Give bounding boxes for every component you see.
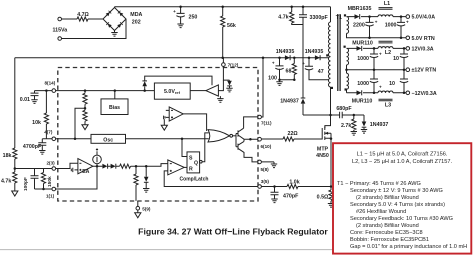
svg-text:L1: L1	[384, 1, 390, 7]
svg-text:470pF: 470pF	[283, 193, 299, 199]
svg-text:2200: 2200	[353, 23, 365, 29]
svg-text:T1 − Primary: 45 Turns # 26 AW: T1 − Primary: 45 Turns # 26 AWG	[337, 181, 421, 187]
svg-text:MUR110: MUR110	[352, 40, 373, 46]
svg-text:18k: 18k	[3, 153, 12, 159]
svg-text:10: 10	[393, 56, 399, 62]
svg-text:MDA: MDA	[130, 12, 142, 18]
svg-text:2.7k: 2.7k	[341, 123, 351, 129]
svg-text:L3: L3	[385, 103, 391, 109]
svg-text:Core: Ferroxcube EC35−3C8: Core: Ferroxcube EC35−3C8	[350, 230, 423, 236]
svg-text:22Ω: 22Ω	[288, 131, 299, 137]
svg-text:4700pF: 4700pF	[23, 144, 42, 150]
svg-text:10k: 10k	[32, 120, 41, 126]
svg-text:100: 100	[268, 75, 277, 81]
svg-text:7(11): 7(11)	[261, 121, 272, 126]
svg-text:S: S	[189, 155, 193, 161]
svg-text:2(3): 2(3)	[47, 160, 56, 165]
svg-text:5.0V/4.0A: 5.0V/4.0A	[412, 15, 436, 21]
svg-text:5(8): 5(8)	[261, 167, 270, 172]
svg-text:Osc: Osc	[103, 137, 113, 143]
svg-text:Secondary ± 12 V: 9 Turns # 30: Secondary ± 12 V: 9 Turns # 30 AWG	[350, 188, 443, 194]
svg-text:12V/0.3A: 12V/0.3A	[412, 46, 434, 52]
svg-text:1000: 1000	[357, 56, 369, 62]
svg-text:±12V RTN: ±12V RTN	[412, 68, 437, 74]
svg-text:+: +	[406, 19, 409, 24]
svg-text:5.0Vref: 5.0Vref	[164, 89, 181, 95]
svg-text:+: +	[173, 9, 176, 14]
svg-text:0.01: 0.01	[20, 97, 30, 103]
svg-text:EA: EA	[82, 169, 89, 175]
svg-text:1.0k: 1.0k	[289, 180, 299, 186]
svg-text:MTP: MTP	[317, 147, 329, 153]
svg-text:#26 Hexfiliar Wound: #26 Hexfiliar Wound	[356, 209, 406, 215]
svg-text:1(1): 1(1)	[46, 194, 55, 199]
svg-text:6(10): 6(10)	[261, 144, 272, 149]
svg-text:4.7Ω: 4.7Ω	[77, 12, 89, 18]
svg-text:L2: L2	[385, 50, 391, 56]
svg-text:1000: 1000	[385, 23, 397, 29]
svg-text:250: 250	[189, 15, 198, 21]
svg-text:47: 47	[318, 69, 324, 75]
svg-text:L1 − 15 μH at 5.0 A, Coilcraft: L1 − 15 μH at 5.0 A, Coilcraft Z7156.	[357, 152, 448, 158]
svg-text:1000: 1000	[357, 81, 369, 87]
svg-text:T1: T1	[336, 15, 342, 21]
svg-text:10: 10	[389, 81, 395, 87]
svg-text:56k: 56k	[227, 23, 236, 29]
svg-text:115Va: 115Va	[53, 28, 68, 34]
svg-text:5(9): 5(9)	[142, 206, 151, 211]
svg-text:−12V/0.3A: −12V/0.3A	[412, 91, 437, 97]
svg-text:L2, L3 − 25 μH at 1.0 A, Coilc: L2, L3 − 25 μH at 1.0 A, Coilcraft Z7157…	[352, 159, 453, 165]
svg-text:68: 68	[286, 69, 292, 75]
svg-text:1N4935: 1N4935	[305, 49, 324, 55]
svg-text:1N4935: 1N4935	[276, 49, 295, 55]
svg-text:MBR1635: MBR1635	[348, 6, 372, 12]
svg-text:Q: Q	[194, 160, 198, 166]
svg-text:3(5): 3(5)	[261, 179, 270, 184]
svg-text:Secondary 5.0 V: 4 Turns (six: Secondary 5.0 V: 4 Turns (six strands)	[350, 202, 445, 208]
svg-text:680pF: 680pF	[336, 106, 352, 112]
svg-text:Bias: Bias	[109, 105, 120, 111]
svg-text:1N4937: 1N4937	[280, 99, 299, 105]
svg-text:202: 202	[132, 20, 141, 26]
svg-text:Secondary Feedback: 10 Turns #: Secondary Feedback: 10 Turns #30 AWG	[350, 216, 453, 222]
svg-text:+: +	[272, 61, 275, 66]
svg-text:8(14): 8(14)	[45, 81, 56, 86]
svg-text:+: +	[375, 19, 378, 24]
svg-text:R: R	[189, 167, 193, 173]
svg-text:MUR110: MUR110	[352, 98, 373, 104]
svg-text:+: +	[379, 85, 382, 90]
svg-text:4.7k: 4.7k	[278, 15, 288, 21]
svg-text:5.0V RTN: 5.0V RTN	[412, 36, 435, 42]
svg-text:Comp/Latch: Comp/Latch	[180, 176, 209, 182]
svg-text:(2 strands) Bifiliar Wound: (2 strands) Bifiliar Wound	[356, 223, 419, 229]
svg-text:+: +	[302, 61, 305, 66]
svg-text:(2 strands) Bifiliar Wound: (2 strands) Bifiliar Wound	[356, 195, 419, 201]
svg-text:Bobbin: Ferroxcube EC35PCB1: Bobbin: Ferroxcube EC35PCB1	[350, 237, 429, 243]
svg-text:4N50: 4N50	[316, 153, 329, 159]
svg-text:0.5Ω: 0.5Ω	[317, 194, 329, 200]
svg-text:3300pF: 3300pF	[310, 15, 329, 21]
svg-text:4.7k: 4.7k	[1, 178, 11, 184]
svg-text:1N4937: 1N4937	[370, 122, 389, 128]
svg-text:100pF: 100pF	[23, 177, 29, 191]
svg-text:Gap = 0.01″ for a primary indu: Gap = 0.01″ for a primary inductance of …	[350, 244, 467, 250]
svg-text:+: +	[379, 52, 382, 57]
svg-text:Figure 34. 27 Watt Off−Line Fl: Figure 34. 27 Watt Off−Line Flyback Regu…	[138, 226, 328, 236]
svg-text:4(7): 4(7)	[44, 129, 53, 134]
svg-text:7(12): 7(12)	[228, 62, 239, 67]
svg-text:150k: 150k	[47, 176, 53, 187]
